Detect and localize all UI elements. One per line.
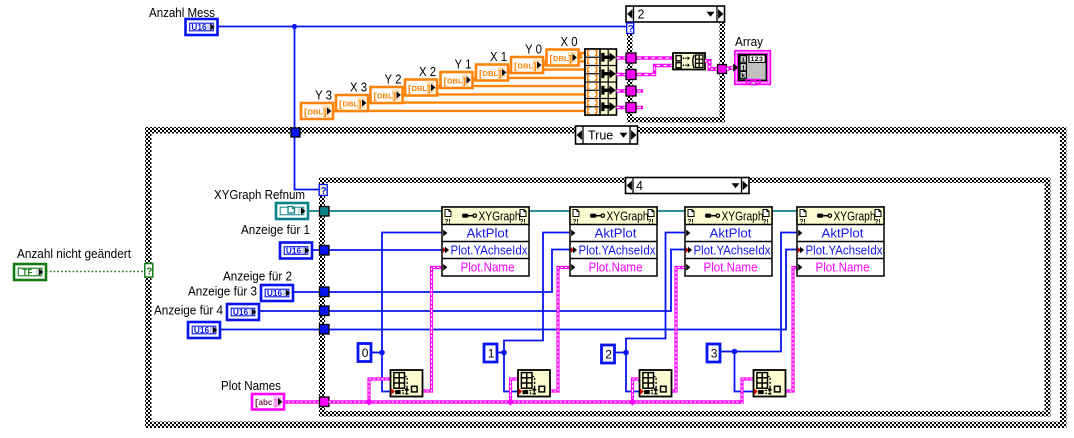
junction dot group 4 [732, 349, 738, 355]
svg-text:Plot.YAchseIdx: Plot.YAchseIdx [579, 244, 657, 258]
property node XYGraph 3 [685, 207, 772, 276]
svg-text:2: 2 [638, 7, 645, 21]
label XYGraph Refnum [214, 187, 305, 202]
svg-text:Array: Array [735, 34, 763, 49]
wire string output riser to Plot.Name of property node 2 [550, 268, 570, 392]
indicator X 1 [DBL] array terminal [476, 65, 508, 81]
property node XYGraph 4 [797, 207, 884, 276]
svg-text:k: k [741, 73, 745, 80]
wire refnum (teal) control to tunnel and through property nodes [308, 210, 797, 212]
svg-text:DBL: DBL [377, 91, 393, 100]
svg-text:1: 1 [488, 347, 495, 361]
svg-text:Plot.Name: Plot.Name [589, 261, 643, 275]
svg-text:X 2: X 2 [419, 64, 436, 79]
tunnel (magenta) 2 on case 2 left edge [626, 70, 636, 80]
wire string-array riser into index array node 3 [633, 379, 640, 404]
svg-text:U16: U16 [267, 288, 283, 298]
wire from tunnel down to inner case selector ? [295, 135, 321, 190]
wire string-array riser into index array node 4 [742, 379, 754, 404]
wire cluster 3 from bundle to case 2 tunnel [617, 89, 644, 92]
svg-text:U16: U16 [286, 245, 302, 255]
wire string-array bus along bottom of inner case [329, 400, 742, 403]
case structure 2 (top right) border [627, 21, 725, 123]
label X 3 [350, 80, 367, 95]
wire AktPlot feed group 1 [382, 233, 442, 353]
svg-text:?: ? [146, 266, 152, 277]
indicator X 0 [DBL] array terminal [547, 50, 579, 66]
selector terminal ? of inner case 4 [319, 185, 327, 198]
junction dot group 2 [501, 350, 507, 356]
tunnel (blue) Anzeige für 3 on inner case left edge [320, 306, 330, 316]
wire index feed down group 4 [735, 352, 757, 392]
svg-text:Anzeige für 1: Anzeige für 1 [241, 222, 310, 237]
case selector label 4 [626, 178, 750, 194]
tunnel (blue) on True structure top edge [291, 128, 300, 137]
svg-text:Anzeige für 4: Anzeige für 4 [154, 303, 223, 318]
svg-text:]: ] [498, 68, 501, 79]
svg-text:?: ? [628, 24, 634, 35]
svg-text:U16: U16 [233, 307, 249, 317]
svg-text:Y 1: Y 1 [455, 57, 472, 72]
svg-text:]: ] [323, 107, 326, 118]
control Anzeige für 4 U16 [188, 322, 220, 338]
label Y 3 [315, 88, 332, 103]
wire X 0 array to bundle input [575, 53, 586, 57]
svg-text:AktPlot: AktPlot [595, 227, 638, 241]
label X 2 [419, 64, 436, 79]
tunnel (magenta) case 2 output [718, 65, 727, 74]
wire Y 3 array to bundle input [329, 110, 585, 112]
svg-text:XYGraph: XYGraph [834, 210, 876, 224]
svg-text:?!: ?! [688, 219, 694, 226]
svg-text:DBL: DBL [483, 69, 499, 78]
constant 3 [707, 344, 720, 362]
control Plot Names [abc] [252, 394, 284, 410]
build array node (case 2) [673, 53, 705, 70]
svg-text:?: ? [321, 186, 327, 197]
svg-text:XYGraph: XYGraph [479, 210, 521, 224]
junction on string bus 3 [629, 398, 636, 405]
svg-text:Plot Names: Plot Names [221, 378, 281, 393]
tunnel (magenta) 1 on case 2 left edge [626, 53, 636, 63]
wire constant 1 to junction [497, 352, 504, 354]
wire string output riser to Plot.Name of property node 4 [786, 268, 798, 392]
svg-text:DBL: DBL [447, 76, 463, 85]
svg-text:4: 4 [636, 179, 643, 193]
svg-text:]: ] [533, 61, 536, 72]
wire AktPlot feed group 4 [735, 233, 798, 352]
wire Anzeige für 4 to Plot.YAchseIdx of property node 4 [220, 250, 797, 330]
tunnel (blue) Anzeige für 4 on inner case left edge [320, 325, 330, 335]
label Plot Names [221, 378, 281, 393]
tunnel (magenta) Plot Names on inner case left edge [320, 397, 330, 407]
index array node 4 [754, 370, 786, 397]
svg-text:Plot.YAchseIdx: Plot.YAchseIdx [451, 244, 529, 258]
wire Plot Names string array to tunnel [284, 400, 320, 403]
case structure 4 (inner) border [319, 178, 1051, 417]
svg-text:Plot.YAchseIdx: Plot.YAchseIdx [806, 244, 884, 258]
svg-text:AktPlot: AktPlot [467, 227, 510, 241]
indicator X 3 [DBL] array terminal [336, 95, 368, 111]
control Anzeige für 1 U16 [280, 243, 312, 259]
control Anzeige für 3 U16 [227, 304, 259, 320]
svg-text:U16: U16 [191, 22, 207, 32]
wire cluster 1 from bundle to case 2 tunnel [617, 56, 674, 59]
wire X 3 array to bundle input [364, 101, 585, 104]
wire X 1 array to bundle input [504, 70, 585, 73]
wire Anzeige für 3 to Plot.YAchseIdx of property node 3 [259, 250, 685, 312]
indicator X 2 [DBL] array terminal [405, 80, 437, 96]
svg-text:]: ] [274, 398, 277, 409]
svg-text:?!: ?! [573, 219, 579, 226]
label Anzahl Mess [149, 5, 215, 20]
svg-text:Plot.YAchseIdx: Plot.YAchseIdx [694, 244, 772, 258]
svg-text:XYGraph: XYGraph [722, 210, 764, 224]
svg-text:i: i [741, 57, 745, 64]
tunnel (magenta) 3 on case 2 left edge [626, 86, 636, 96]
svg-text:U16: U16 [194, 325, 210, 335]
svg-text:DBL: DBL [412, 84, 428, 93]
svg-text:Plot.Name: Plot.Name [704, 261, 758, 275]
control XYGraph Refnum [276, 203, 308, 219]
svg-text:TF: TF [22, 267, 32, 277]
wire Anzahl Mess to case selectors (blue) [217, 26, 627, 28]
indicator Y 2 [DBL] array terminal [371, 87, 403, 103]
svg-text:DBL: DBL [343, 99, 359, 108]
svg-text:3: 3 [711, 347, 718, 361]
svg-text:?!: ?! [800, 219, 806, 226]
svg-text:]: ] [358, 99, 361, 110]
control Anzahl nicht geändert TF [14, 264, 46, 280]
svg-text:Anzahl nicht geändert: Anzahl nicht geändert [17, 246, 131, 261]
label X 1 [490, 49, 507, 64]
svg-text:AktPlot: AktPlot [710, 227, 753, 241]
svg-text:Y 3: Y 3 [315, 88, 332, 103]
label Y 0 [525, 42, 542, 57]
svg-text:AktPlot: AktPlot [822, 227, 865, 241]
svg-text:]: ] [427, 83, 430, 94]
svg-text:abc: abc [259, 398, 273, 407]
svg-text:Y 0: Y 0 [525, 42, 542, 57]
indicator Array (array of clusters) [733, 51, 770, 85]
svg-text:XYGraph Refnum: XYGraph Refnum [214, 187, 305, 202]
svg-text:Plot.Name: Plot.Name [461, 261, 515, 275]
label Array [735, 34, 763, 49]
svg-text:0: 0 [362, 346, 369, 360]
junction on string bus 1 [365, 398, 372, 405]
svg-text:DBL: DBL [518, 61, 534, 70]
selector terminal ? of True case [145, 264, 153, 278]
svg-text:]: ] [393, 91, 396, 102]
wire index feed down group 1 [382, 353, 394, 392]
wire X 2 array to bundle input [433, 86, 585, 87]
svg-text:Anzeige für 3: Anzeige für 3 [188, 284, 257, 299]
wire cluster 2 from bundle to case 2 tunnel [617, 66, 674, 75]
svg-text:X 0: X 0 [561, 34, 578, 49]
svg-text:X 1: X 1 [490, 49, 507, 64]
svg-text:True: True [588, 128, 613, 142]
wire vertical drop from Anzahl Mess into True structure [294, 27, 296, 131]
svg-text:DBL: DBL [308, 107, 324, 116]
case structure True (outer) border [145, 127, 1067, 428]
constant 0 [358, 344, 371, 362]
constant 1 [484, 344, 497, 362]
wire constant 2 to junction [615, 352, 627, 354]
wire from tunnel to Array indicator [727, 68, 734, 70]
wire Y 2 array to bundle input [399, 93, 586, 96]
label Y 1 [455, 57, 472, 72]
tunnel (blue) Anzeige für 1 on inner case left edge [320, 246, 330, 256]
label Anzahl nicht geändert [17, 246, 131, 261]
indicator Y 0 [DBL] array terminal [511, 57, 543, 73]
indicator Y 1 [DBL] array terminal [441, 72, 473, 88]
wire index feed down group 3 [626, 353, 643, 392]
property node XYGraph 1 [442, 207, 529, 276]
svg-text:]: ] [463, 76, 466, 87]
tunnel (blue) Anzeige für 2 on inner case left edge [320, 287, 330, 297]
svg-text:2: 2 [605, 348, 612, 362]
label Y 2 [385, 72, 402, 87]
indicator Y 3 [DBL] array terminal [301, 103, 333, 119]
control Anzahl Mess U16 [186, 19, 218, 35]
wire boolean dotted from TF to True case selector terminal [46, 271, 145, 273]
junction dot group 3 [623, 350, 629, 356]
wire AktPlot feed group 3 [626, 233, 685, 353]
svg-text:]: ] [569, 53, 572, 64]
svg-text:j: j [741, 65, 745, 72]
junction on string bus 2 [507, 398, 514, 405]
index array node 3 [640, 370, 672, 397]
tunnel (teal) refnum on inner case left edge [320, 207, 330, 217]
index array node 2 [518, 370, 550, 397]
constant 2 [602, 345, 615, 363]
wire index feed down group 2 [504, 353, 521, 392]
label Anzeige für 1 [241, 222, 310, 237]
svg-text:Plot.Name: Plot.Name [816, 261, 870, 275]
label X 0 [561, 34, 578, 49]
wire string-array riser into index array node 1 [369, 379, 391, 404]
junction dot group 1 [379, 350, 385, 356]
wire array-of-clusters from build array to tunnel out [705, 61, 718, 69]
wire string output riser to Plot.Name of property node 3 [672, 268, 686, 392]
control Anzeige für 2 U16 [261, 285, 293, 301]
wire Y 0 array to bundle input [539, 61, 585, 65]
bundle nodes block (4 bundle-by-name nodes) [585, 49, 617, 115]
wire Anzeige für 1 to Plot.YAchseIdx of property node 1 [312, 249, 442, 251]
label Anzeige für 3 [188, 284, 257, 299]
wire string-array riser into index array node 2 [511, 379, 519, 404]
label Anzeige für 2 [223, 269, 292, 284]
tunnel (magenta) 4 on case 2 left edge [626, 103, 636, 113]
svg-text:Y 2: Y 2 [385, 72, 402, 87]
wire string output riser to Plot.Name of property node 1 [423, 268, 443, 392]
wire AktPlot feed group 2 [504, 233, 570, 353]
wire Y 1 array to bundle input [469, 78, 586, 80]
wire junction dot at x=294.5 [292, 24, 297, 29]
case selector label True [576, 126, 638, 144]
svg-text:XYGraph: XYGraph [607, 210, 649, 224]
label Anzeige für 4 [154, 303, 223, 318]
case selector label 2 [626, 6, 725, 22]
svg-text:X 3: X 3 [350, 80, 367, 95]
svg-text:DBL: DBL [553, 54, 569, 63]
svg-text:123: 123 [751, 56, 764, 63]
wire constant 3 to junction [720, 351, 735, 353]
wire cluster 4 from bundle to case 2 tunnel [617, 106, 644, 109]
svg-text:Anzeige für 2: Anzeige für 2 [223, 269, 292, 284]
index array node 1 [391, 370, 423, 397]
selector terminal ? of case 2 [627, 23, 634, 35]
svg-text:?!: ?! [445, 219, 451, 226]
property node XYGraph 2 [570, 207, 657, 276]
wire Anzeige für 2 to Plot.YAchseIdx of property node 2 [293, 250, 570, 293]
wire constant 0 to junction [371, 352, 382, 354]
